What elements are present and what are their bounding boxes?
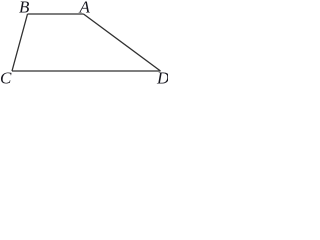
svg-text:A: A <box>79 0 91 17</box>
trapezoid ABDC figure <box>0 0 168 84</box>
svg-text:C: C <box>0 69 12 85</box>
side CB (left slanted edge) <box>12 14 28 71</box>
svg-text:D: D <box>156 69 168 85</box>
side AD (right diagonal edge) <box>84 14 161 71</box>
side CD (bottom edge) <box>12 70 161 72</box>
side BA (top edge) <box>28 13 84 15</box>
svg-text:B: B <box>19 0 30 17</box>
